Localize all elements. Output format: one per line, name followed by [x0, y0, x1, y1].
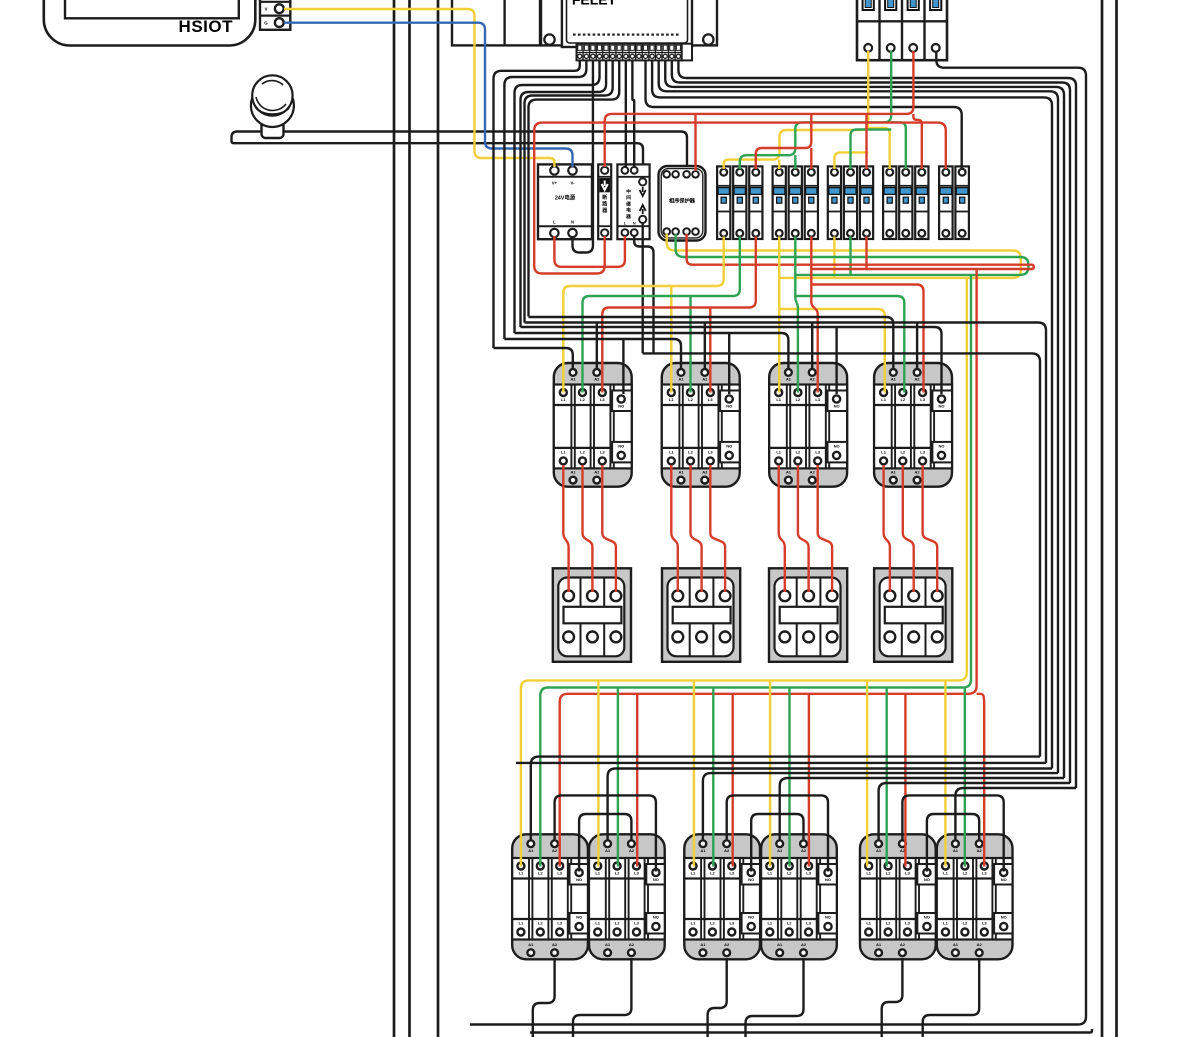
wire: control line to KM3 A1	[515, 333, 789, 394]
svg-text:N: N	[633, 222, 636, 226]
svg-text:NO: NO	[576, 915, 582, 920]
svg-text:A2: A2	[629, 848, 635, 853]
wire: contactor to overload relay (red)	[779, 465, 785, 592]
wire: bus drop	[788, 688, 790, 867]
wire: QF2 to KM2/KM4 L1 (yellow)	[779, 237, 885, 393]
svg-text:A1: A1	[891, 377, 897, 382]
svg-text:A1: A1	[953, 942, 959, 947]
svg-text:A1: A1	[700, 942, 706, 947]
svg-text:NO: NO	[726, 443, 732, 448]
wire: KM5 coil return	[533, 958, 555, 1037]
svg-text:器: 器	[625, 213, 631, 220]
svg-text:L2: L2	[615, 920, 620, 925]
svg-text:A2: A2	[724, 942, 730, 947]
wire: contactor to overload relay (red)	[671, 465, 678, 592]
wire: PLC output 1 drop	[494, 60, 580, 348]
wire: PLC terminal to relay A2	[632, 60, 634, 167]
wire: PLC output right run	[652, 60, 1052, 768]
svg-text:A1: A1	[953, 848, 959, 853]
wire: bus drop	[693, 680, 695, 866]
wire: control power loop (red)	[534, 123, 946, 274]
contactor KM3	[769, 363, 847, 487]
svg-text:L3: L3	[806, 920, 811, 925]
wire: A2 return bus	[525, 323, 1047, 763]
svg-text:L2: L2	[710, 920, 715, 925]
svg-text:L2: L2	[796, 449, 801, 454]
svg-text:A1: A1	[528, 942, 534, 947]
contactor KM10	[937, 834, 1013, 959]
svg-text:L1: L1	[561, 397, 566, 402]
svg-text:A1: A1	[876, 942, 882, 947]
wire: relay N down-jog	[634, 236, 653, 353]
push button SB1	[251, 75, 294, 138]
svg-text:L3: L3	[600, 449, 605, 454]
svg-text:V-: V-	[571, 181, 576, 186]
wire: control line to KM1 A1	[494, 348, 573, 368]
svg-text:L1: L1	[767, 871, 772, 876]
svg-text:器: 器	[601, 207, 608, 214]
svg-text:L2: L2	[886, 871, 891, 876]
svg-text:A2: A2	[552, 942, 558, 947]
wire: PLC output right run	[665, 60, 1064, 778]
contactor KM5	[512, 834, 588, 959]
svg-text:NO: NO	[653, 915, 659, 920]
wire: KM9 coil return	[882, 958, 903, 1037]
svg-text:L2: L2	[538, 920, 543, 925]
svg-text:L2: L2	[688, 397, 693, 402]
contactor KM4	[874, 363, 952, 487]
svg-text:L1: L1	[595, 871, 600, 876]
svg-text:A2: A2	[594, 470, 600, 475]
wire: control line to KM4 A1	[529, 317, 894, 368]
wire: coil feed KM10	[955, 788, 1076, 841]
24V power supply	[538, 164, 592, 239]
svg-text:A1: A1	[605, 942, 611, 947]
svg-text:A2: A2	[810, 377, 816, 382]
contactor KM7	[684, 834, 760, 959]
contactor KM6	[589, 834, 665, 959]
wire: coil return line 2	[530, 1029, 1092, 1033]
wire: bus drop	[617, 688, 619, 867]
svg-text:L3: L3	[729, 871, 734, 876]
wire: PLC output 4 drop	[515, 60, 600, 333]
wire: PLC output right run	[678, 60, 1076, 788]
svg-text:NO: NO	[939, 443, 945, 448]
svg-text:L1: L1	[881, 397, 886, 402]
svg-text:L1: L1	[595, 920, 600, 925]
svg-text:A1: A1	[777, 848, 783, 853]
wire: bus drop	[769, 680, 771, 866]
svg-text:相序保护器: 相序保护器	[669, 197, 696, 205]
svg-text:L1: L1	[943, 920, 948, 925]
wire: interlock bridge A2-NO	[555, 795, 656, 871]
thermal overload relay FR4	[874, 568, 952, 662]
wire: HMI V to PSU V+ (yellow)	[284, 9, 554, 167]
wire: button wire lower	[236, 143, 643, 178]
wire: PLC output 7 drop	[529, 60, 620, 316]
svg-text:L3: L3	[600, 397, 605, 402]
svg-text:L1: L1	[943, 871, 948, 876]
wire: PLC output right run	[659, 60, 1058, 773]
svg-text:L1: L1	[691, 871, 696, 876]
svg-text:A1: A1	[678, 470, 684, 475]
svg-text:A1: A1	[876, 848, 882, 853]
branch breaker QF4 (3P)	[883, 166, 928, 239]
svg-text:电: 电	[626, 207, 631, 214]
svg-text:A2: A2	[977, 942, 983, 947]
wire: protected phase bus (red)	[560, 234, 1034, 867]
svg-text:L1: L1	[561, 449, 566, 454]
svg-text:A2: A2	[594, 377, 600, 382]
wire: interlock bridge NO-A2	[579, 814, 631, 872]
wire: contactor to overload relay (red)	[884, 465, 890, 592]
svg-text:L1: L1	[776, 449, 781, 454]
branch breaker QF3 (3P)	[828, 166, 873, 239]
contactor KM8	[761, 834, 837, 959]
wire: bus drop KM9 L2 (green)	[886, 688, 888, 867]
svg-text:L1: L1	[691, 920, 696, 925]
svg-text:L3: L3	[708, 449, 713, 454]
wire: red tap to phase protector	[694, 114, 696, 171]
wire: KM7 coil return	[708, 958, 727, 1037]
svg-text:NO: NO	[726, 404, 732, 409]
svg-text:中: 中	[626, 188, 631, 195]
svg-text:L2: L2	[900, 397, 905, 402]
svg-text:L1: L1	[881, 449, 886, 454]
svg-text:L2: L2	[710, 871, 715, 876]
svg-text:L3: L3	[634, 920, 639, 925]
intermediate relay KA1	[617, 164, 649, 239]
wire: coil feed KM7	[703, 773, 1058, 841]
contactor KM9	[860, 834, 936, 959]
svg-text:NO: NO	[653, 877, 659, 882]
svg-text:NO: NO	[618, 404, 624, 409]
wire: contactor to overload relay (red)	[563, 465, 568, 592]
svg-text:L3: L3	[557, 871, 562, 876]
svg-text:L1: L1	[866, 871, 871, 876]
svg-text:L3: L3	[982, 920, 987, 925]
wire: button wire upper	[232, 132, 688, 172]
svg-text:继: 继	[626, 200, 631, 207]
wire: contactor to overload relay (red)	[923, 465, 938, 592]
svg-text:A1: A1	[786, 377, 792, 382]
wire: KM8 coil return	[746, 958, 804, 1037]
svg-text:L3: L3	[920, 397, 925, 402]
svg-text:NO: NO	[825, 877, 831, 882]
svg-text:L3: L3	[905, 871, 910, 876]
svg-text:N: N	[571, 220, 574, 225]
svg-text:L1: L1	[767, 920, 772, 925]
svg-text:A1: A1	[700, 848, 706, 853]
svg-text:NO: NO	[939, 404, 945, 409]
svg-text:L: L	[553, 220, 556, 225]
svg-text:L3: L3	[634, 871, 639, 876]
svg-text:L3: L3	[806, 871, 811, 876]
wire: interlock bridge A2-NO	[727, 795, 828, 871]
svg-text:NO: NO	[618, 443, 624, 448]
PLC controller U1	[452, 0, 717, 47]
svg-text:L1: L1	[669, 449, 674, 454]
svg-text:L2: L2	[615, 871, 620, 876]
wire: PLC terminal to relay A1	[625, 60, 627, 167]
svg-text:A2: A2	[801, 942, 807, 947]
wire: KM6 coil return	[573, 958, 631, 1037]
svg-text:FELET: FELET	[572, 0, 617, 8]
svg-text:L2: L2	[787, 920, 792, 925]
svg-text:A2: A2	[810, 470, 816, 475]
wire: contactor to overload relay (red)	[903, 465, 914, 592]
HMI touch panel HSIOT	[44, 0, 256, 46]
wire: enclosure frame vertical left 2	[408, 0, 411, 1037]
svg-text:L3: L3	[982, 871, 987, 876]
svg-text:A2: A2	[977, 848, 983, 853]
svg-text:NO: NO	[576, 877, 582, 882]
svg-text:L2: L2	[963, 871, 968, 876]
svg-text:G: G	[264, 21, 268, 26]
wire: PLC output 5 drop	[521, 60, 607, 327]
wire: phase L3 distribution (red)	[605, 51, 922, 169]
thermal overload relay FR3	[769, 568, 847, 662]
svg-text:A1: A1	[678, 377, 684, 382]
svg-text:NO: NO	[1001, 877, 1007, 882]
wire: PLC output right run	[672, 60, 1070, 783]
svg-text:A1: A1	[891, 470, 897, 475]
wire: QF2 to KM2/KM4 L3 (red)	[811, 237, 923, 393]
terminal block V/G of HMI	[260, 0, 290, 30]
wire: QF1 to KM1 L3 (red)	[602, 237, 756, 393]
wire: QF2 to KM2/KM4 L2 (green)	[795, 237, 904, 393]
svg-text:NO: NO	[748, 915, 754, 920]
svg-text:L3: L3	[708, 397, 713, 402]
wire: PSU L to relay L (red)	[554, 236, 625, 267]
wire: coil feed KM9	[879, 783, 1070, 841]
wire: contactor to overload relay (red)	[602, 465, 616, 592]
svg-text:L2: L2	[886, 920, 891, 925]
wire: bus drop KM10 L2 (green)	[964, 688, 966, 867]
svg-text:A2: A2	[552, 848, 558, 853]
svg-text:L3: L3	[905, 920, 910, 925]
svg-text:L3: L3	[815, 449, 820, 454]
wire: contactor to overload relay (red)	[710, 465, 725, 592]
svg-text:间: 间	[626, 194, 631, 201]
svg-text:L1: L1	[519, 871, 524, 876]
svg-text:NO: NO	[924, 877, 930, 882]
svg-text:A1: A1	[605, 848, 611, 853]
wire: PLC output 6 drop	[525, 60, 613, 322]
wire: bus drop	[636, 694, 638, 867]
thermal overload relay FR1	[553, 568, 631, 662]
svg-text:L2: L2	[688, 449, 693, 454]
wire: PLC terminal to PSU N	[573, 60, 593, 252]
svg-text:L3: L3	[729, 920, 734, 925]
svg-text:L3: L3	[920, 449, 925, 454]
wire: protected phase bus (yellow)	[521, 234, 1021, 867]
svg-text:L2: L2	[963, 920, 968, 925]
contactor KM1	[554, 363, 632, 487]
wire: phase L2 distribution (green)	[740, 51, 906, 169]
wire: bus drop KM10 L1 (yellow)	[944, 680, 946, 866]
wire: phase L1 distribution (yellow)	[724, 51, 890, 169]
svg-text:L2: L2	[580, 397, 585, 402]
wire: enclosure frame vertical left 3	[437, 0, 440, 1037]
control breaker QF6 (1P)	[598, 164, 611, 239]
wire: protected phase bus (green)	[540, 234, 1028, 867]
svg-text:HSIOT: HSIOT	[179, 17, 234, 36]
svg-text:L2: L2	[580, 449, 585, 454]
svg-text:A1: A1	[570, 470, 576, 475]
phase sequence protector	[659, 166, 706, 241]
wire: return collector line	[516, 762, 1046, 764]
wire: coil feed KM6	[608, 769, 1052, 842]
svg-text:A2: A2	[724, 848, 730, 853]
PLC terminal strip	[577, 44, 693, 61]
main circuit breaker QF0 (4P)	[857, 0, 947, 60]
svg-text:24V电源: 24V电源	[555, 194, 576, 202]
svg-text:NO: NO	[924, 915, 930, 920]
wire: interlock bridge NO-A2	[927, 814, 979, 872]
wire: contactor to overload relay (red)	[691, 465, 702, 592]
svg-text:A2: A2	[915, 377, 921, 382]
svg-text:L2: L2	[900, 449, 905, 454]
branch breaker QF2 (3P)	[773, 166, 818, 239]
wire: bus drop	[808, 694, 810, 867]
wire: NO/relay line to right	[643, 353, 1040, 756]
thermal overload relay FR2	[662, 568, 740, 662]
wire: interlock bridge NO-A2	[751, 814, 803, 872]
wire: coil feed KM5	[531, 757, 1040, 841]
wire: relay output down	[642, 223, 644, 353]
svg-text:L2: L2	[796, 397, 801, 402]
svg-text:A2: A2	[629, 942, 635, 947]
branch breaker QF1 (3P)	[717, 166, 762, 239]
svg-text:A1: A1	[528, 848, 534, 853]
wire: enclosure frame vertical left 1	[393, 0, 396, 1037]
wire: interlock bridge A2-NO	[902, 795, 1003, 871]
wire: control line to KM2 A1	[504, 339, 681, 394]
wire: contactor to overload relay (red)	[583, 465, 593, 592]
wire: control line to KM4 NO	[521, 327, 942, 394]
svg-text:断: 断	[602, 194, 607, 201]
wire: main breaker N to right bundle	[470, 51, 1086, 1025]
svg-text:V+: V+	[552, 181, 558, 186]
svg-text:L3: L3	[557, 920, 562, 925]
svg-text:A2: A2	[801, 848, 807, 853]
wire: QF1 to KM1 L2 (green)	[583, 237, 740, 393]
svg-text:A1: A1	[570, 377, 576, 382]
svg-text:A1: A1	[786, 470, 792, 475]
wire: PLC output 2 drop	[504, 60, 586, 339]
wire: bus drop	[597, 680, 599, 866]
wire: HMI G to PSU V- (blue)	[284, 23, 573, 167]
svg-text:NO: NO	[834, 443, 840, 448]
svg-text:L1: L1	[776, 397, 781, 402]
wire: contactor to overload relay (red)	[818, 465, 832, 592]
svg-text:NO: NO	[834, 404, 840, 409]
svg-text:A1: A1	[777, 942, 783, 947]
svg-text:A2: A2	[900, 942, 906, 947]
wire: bus drop KM9 L1 (yellow)	[866, 680, 868, 866]
svg-text:NO: NO	[748, 877, 754, 882]
contactor KM2	[662, 363, 740, 487]
svg-text:L3: L3	[815, 397, 820, 402]
svg-text:L1: L1	[866, 920, 871, 925]
svg-text:L1: L1	[669, 397, 674, 402]
wire: PLC output to QF5	[646, 60, 962, 168]
svg-text:L1: L1	[519, 920, 524, 925]
wire: enclosure frame vertical right 1	[1101, 0, 1104, 1037]
svg-text:A2: A2	[702, 377, 708, 382]
wire: bus drop	[732, 694, 734, 867]
svg-text:L2: L2	[787, 871, 792, 876]
wire: bus drop	[712, 688, 714, 867]
wire: contactor to overload relay (red)	[798, 465, 809, 592]
branch breaker QF5 (2P)	[939, 166, 969, 239]
svg-text:A2: A2	[702, 470, 708, 475]
svg-text:L2: L2	[538, 871, 543, 876]
svg-text:A2: A2	[915, 470, 921, 475]
wire: KM10 coil return	[923, 958, 980, 1037]
wire: enclosure frame vertical right 2	[1115, 0, 1118, 1037]
wire: coil feed KM8	[780, 778, 1064, 841]
svg-text:NO: NO	[825, 915, 831, 920]
wire: QF1 to KM1 L1 (yellow)	[563, 237, 723, 393]
wire: bus drop KM9 L3 (red)	[904, 694, 906, 867]
svg-text:V: V	[264, 7, 267, 12]
svg-text:NO: NO	[1001, 915, 1007, 920]
